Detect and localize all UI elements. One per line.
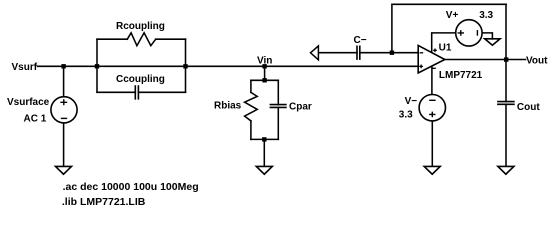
svg-text:LMP7721: LMP7721: [439, 70, 483, 81]
svg-text:Cout: Cout: [517, 102, 540, 113]
svg-text:Cpar: Cpar: [289, 101, 312, 112]
svg-text:V−: V−: [405, 96, 418, 107]
svg-text:3.3: 3.3: [479, 10, 493, 21]
svg-text:.ac dec 10000 100u 100Meg: .ac dec 10000 100u 100Meg: [63, 181, 199, 193]
svg-text:C−: C−: [354, 35, 367, 46]
svg-text:Rcoupling: Rcoupling: [116, 21, 165, 32]
svg-text:Ccoupling: Ccoupling: [116, 74, 165, 85]
svg-text:Vin: Vin: [257, 55, 272, 66]
svg-text:Vsurface: Vsurface: [7, 97, 50, 108]
svg-text:V+: V+: [446, 10, 459, 21]
svg-text:3.3: 3.3: [399, 109, 413, 120]
svg-text:AC 1: AC 1: [24, 113, 47, 124]
svg-text:Rbias: Rbias: [214, 101, 242, 112]
svg-text:.lib LMP7721.LIB: .lib LMP7721.LIB: [62, 196, 146, 208]
svg-text:U1: U1: [439, 42, 452, 53]
svg-text:Vout: Vout: [526, 56, 548, 67]
svg-text:Vsurf: Vsurf: [12, 62, 38, 73]
